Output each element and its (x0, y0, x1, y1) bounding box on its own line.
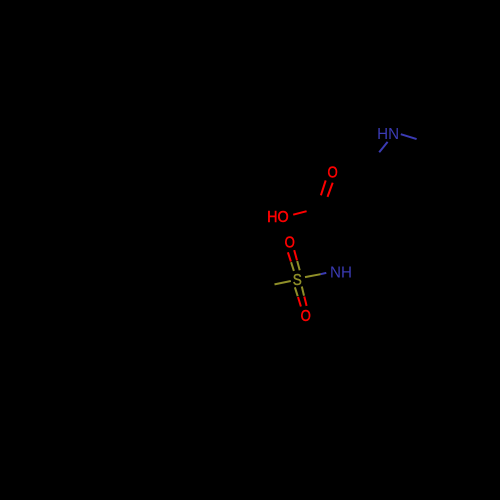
double bond S=O3 line b (S half, olive) (297, 261, 300, 270)
double bond S=O4 line a (O half, red) (298, 297, 301, 307)
bond N1-C2 (N half, blue) (401, 134, 417, 139)
bond N1-C7a (N half, blue) (379, 142, 387, 152)
svg-text:O: O (285, 235, 295, 252)
svg-text:O: O (301, 308, 311, 325)
bond O2-C carboxyl (O half, red) (293, 211, 306, 215)
double bond S=O4 line a (S half, olive) (295, 287, 298, 296)
double bond S=O3 line b (O half, red) (294, 250, 297, 260)
bond S1-N2 (S half, olive) (305, 274, 321, 277)
svg-text:NH: NH (330, 264, 352, 281)
double bond C=O1 line b (O half, red) (328, 183, 333, 197)
bond S1-N2 (N half, blue) (321, 273, 327, 274)
double bond S=O4 line b (O half, red) (304, 297, 306, 306)
double bond C=O1 line a (O half, red) (321, 180, 326, 195)
svg-text:HO: HO (267, 209, 288, 227)
bond S1-CH3 (S half, olive) (275, 281, 291, 284)
svg-text:O: O (328, 164, 338, 181)
double bond S=O3 line a (S half, olive) (291, 262, 294, 271)
svg-text:S: S (293, 272, 302, 289)
double bond S=O3 line a (O half, red) (288, 252, 291, 261)
svg-text:HN: HN (377, 126, 399, 143)
double bond S=O4 line b (S half, olive) (302, 287, 304, 296)
